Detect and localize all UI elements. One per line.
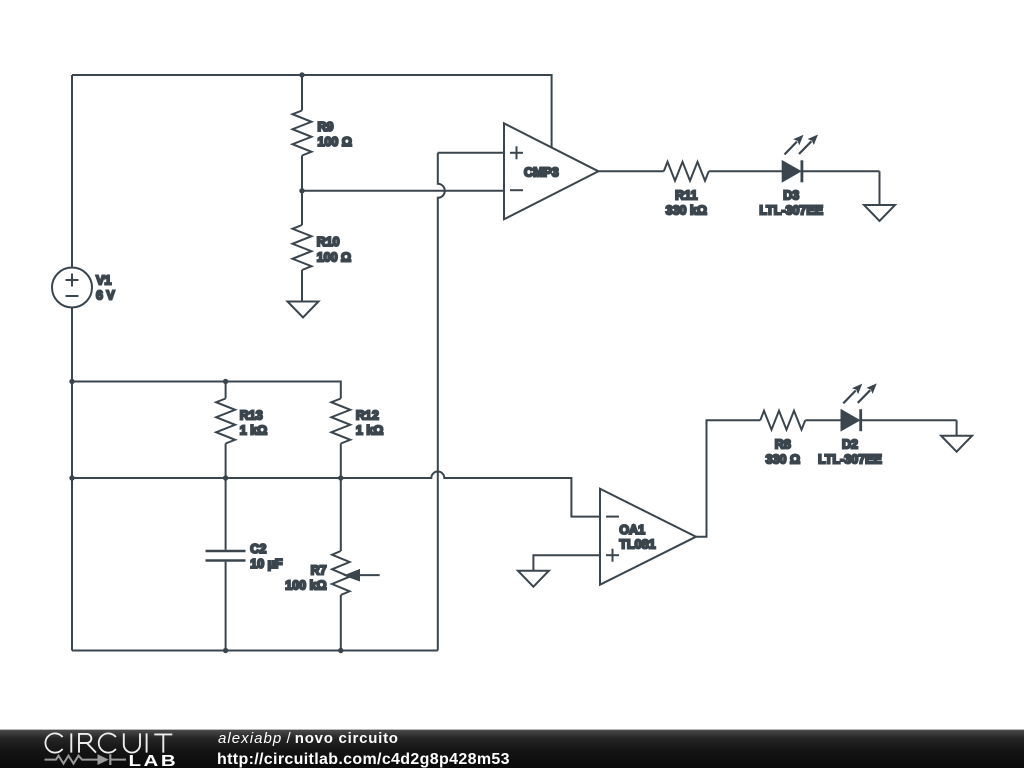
svg-text:TL081: TL081 [619, 538, 655, 552]
svg-text:R7: R7 [311, 563, 327, 577]
svg-text:1 kΩ: 1 kΩ [240, 424, 267, 438]
svg-text:C2: C2 [250, 542, 266, 556]
svg-text:100 kΩ: 100 kΩ [285, 578, 326, 592]
svg-text:D3: D3 [783, 188, 799, 202]
svg-text:330 kΩ: 330 kΩ [666, 203, 707, 217]
svg-text:330 Ω: 330 Ω [766, 453, 800, 467]
svg-text:R8: R8 [775, 438, 791, 452]
svg-text:D2: D2 [842, 438, 858, 452]
svg-text:CMP3: CMP3 [524, 165, 559, 179]
svg-text:R9: R9 [318, 120, 334, 134]
svg-text:100 Ω: 100 Ω [318, 135, 352, 149]
svg-text:LTL-307EE: LTL-307EE [759, 203, 823, 217]
svg-text:10 µF: 10 µF [250, 557, 283, 571]
svg-text:6 V: 6 V [96, 288, 115, 302]
svg-text:V1: V1 [96, 273, 111, 287]
svg-text:LAB: LAB [129, 751, 179, 769]
svg-text:R10: R10 [317, 235, 340, 249]
svg-text:R13: R13 [240, 409, 263, 423]
svg-text:100 Ω: 100 Ω [317, 251, 351, 265]
svg-text:OA1: OA1 [619, 523, 645, 537]
svg-text:R11: R11 [675, 188, 697, 202]
svg-text:LTL-307EE: LTL-307EE [818, 453, 882, 467]
svg-text:R12: R12 [356, 409, 379, 423]
svg-text:1 kΩ: 1 kΩ [356, 424, 383, 438]
